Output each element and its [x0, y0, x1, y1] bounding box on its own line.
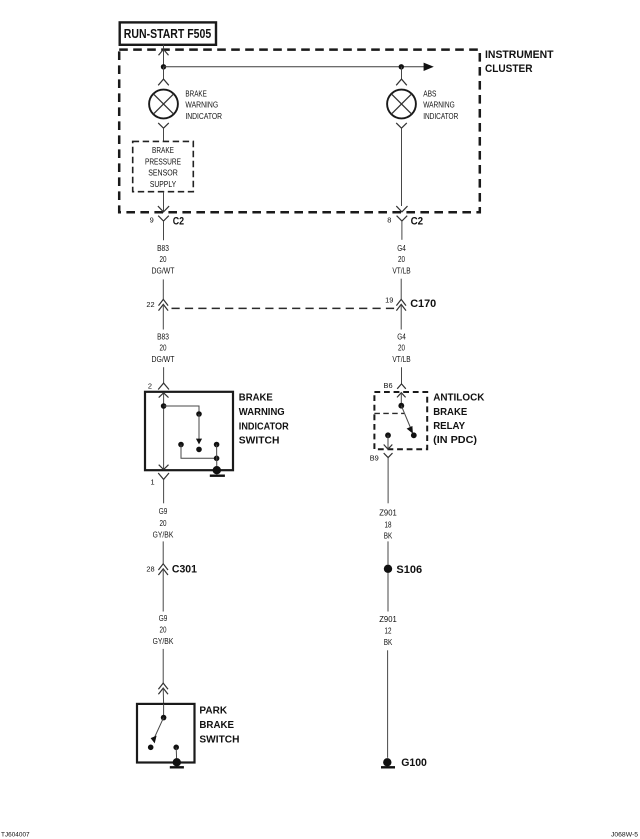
label brake pressure sensor supply	[145, 145, 181, 189]
svg-text:DG/WT: DG/WT	[152, 354, 175, 364]
connector fork pin B6	[397, 384, 406, 389]
node switch left contact	[178, 442, 184, 448]
svg-text:20: 20	[398, 343, 405, 353]
svg-text:TJ604007: TJ604007	[1, 831, 30, 838]
svg-text:20: 20	[398, 254, 405, 264]
svg-text:BRAKE: BRAKE	[152, 145, 174, 155]
label antilock brake relay	[433, 393, 485, 447]
connector fork above abs lamp	[396, 79, 407, 85]
svg-text:9: 9	[150, 216, 154, 225]
wire to relay pin B6	[401, 367, 403, 384]
svg-text:DG/WT: DG/WT	[152, 265, 175, 275]
svg-text:(IN PDC): (IN PDC)	[433, 435, 477, 446]
svg-text:CLUSTER: CLUSTER	[485, 63, 533, 75]
wire to C170 right	[400, 279, 402, 300]
svg-text:S106: S106	[396, 564, 422, 576]
relay pin B9 exit	[384, 435, 393, 449]
svg-text:28: 28	[146, 565, 154, 574]
wire switch branch	[164, 406, 199, 414]
svg-text:20: 20	[160, 254, 167, 264]
svg-text:BRAKE: BRAKE	[199, 720, 234, 731]
connector fork above brake lamp	[158, 79, 169, 85]
switch case ground	[210, 466, 225, 476]
park brake switch box	[137, 704, 195, 763]
svg-text:C301: C301	[172, 563, 198, 575]
svg-text:VT/LB: VT/LB	[392, 265, 411, 275]
svg-text:8: 8	[387, 216, 391, 225]
wire to C170 left	[162, 279, 164, 299]
connector C301 pin 28	[158, 564, 168, 612]
connector C170 link line	[172, 307, 397, 309]
wire label G4 20 VT/LB	[392, 243, 411, 276]
wire label B83 20 DG/WT lower	[152, 332, 175, 364]
wire to G100	[387, 650, 389, 758]
svg-text:22: 22	[146, 300, 154, 309]
connector C170 pin 22	[159, 299, 169, 329]
node switch center contact	[196, 447, 202, 453]
wire below S106	[387, 573, 389, 612]
wire label G4 20 VT/LB lower	[392, 332, 411, 364]
label park brake switch	[199, 705, 239, 745]
wire label Z901 18 BK	[379, 508, 397, 541]
node park brake common	[161, 715, 167, 721]
connector fork below abs lamp	[396, 123, 407, 206]
park brake switch blade	[151, 718, 164, 744]
svg-text:BK: BK	[384, 637, 393, 647]
connector fork pin 1	[158, 473, 169, 503]
connector C2 pin 8	[396, 206, 407, 240]
svg-text:GY/BK: GY/BK	[153, 636, 174, 646]
svg-text:B9: B9	[370, 453, 379, 462]
svg-text:INSTRUMENT: INSTRUMENT	[485, 49, 554, 61]
node park brake ground contact	[173, 745, 179, 751]
switch wiper arm	[196, 414, 202, 444]
lamp brake warning indicator	[149, 90, 178, 119]
svg-text:WARNING: WARNING	[423, 100, 455, 110]
wire label G9 20 GY/BK	[153, 506, 174, 539]
node switch link joint	[214, 456, 220, 462]
svg-text:SUPPLY: SUPPLY	[150, 179, 177, 189]
svg-text:19: 19	[385, 295, 393, 304]
splice S106	[384, 565, 392, 573]
label brake warning indicator	[185, 88, 222, 121]
switch through line	[159, 393, 169, 470]
svg-text:C2: C2	[411, 216, 424, 228]
svg-text:WARNING: WARNING	[239, 407, 285, 418]
svg-text:J068W-5: J068W-5	[611, 831, 638, 838]
wire switch to case ground	[216, 445, 218, 471]
svg-text:G9: G9	[159, 506, 168, 516]
node left junction	[161, 64, 166, 69]
wire junction to brake lamp	[163, 67, 165, 79]
svg-text:RUN-START F505: RUN-START F505	[124, 26, 211, 41]
svg-text:2: 2	[148, 382, 152, 391]
instrument cluster box	[119, 50, 480, 213]
wire switch contact link	[181, 445, 217, 459]
connector fork pin 2	[158, 383, 169, 389]
svg-text:BK: BK	[384, 530, 393, 540]
svg-text:B83: B83	[157, 332, 169, 342]
brake pressure sensor supply box	[133, 141, 194, 191]
wire F505 to left junction	[163, 45, 165, 67]
svg-text:C170: C170	[410, 298, 436, 310]
svg-text:20: 20	[160, 624, 167, 634]
svg-text:SENSOR: SENSOR	[148, 168, 178, 178]
svg-text:G4: G4	[397, 243, 406, 253]
svg-text:INDICATOR: INDICATOR	[185, 111, 222, 121]
svg-text:G9: G9	[159, 613, 168, 623]
svg-text:SWITCH: SWITCH	[199, 734, 239, 745]
node switch branch contact	[196, 411, 202, 417]
connector C2 pin 9	[158, 206, 169, 240]
wire to C301	[162, 541, 164, 563]
svg-text:ABS: ABS	[423, 88, 437, 98]
svg-text:12: 12	[385, 625, 392, 635]
svg-text:INDICATOR: INDICATOR	[423, 111, 458, 121]
svg-text:RELAY: RELAY	[433, 421, 465, 432]
brake warning indicator switch box	[145, 392, 233, 470]
label brake warning indicator switch	[239, 393, 289, 447]
svg-text:1: 1	[150, 477, 154, 486]
relay pin B6 entry	[397, 393, 406, 406]
svg-text:C2: C2	[173, 216, 184, 228]
svg-text:PARK: PARK	[199, 705, 227, 716]
wire sensor box to C2	[163, 192, 165, 212]
svg-text:G4: G4	[397, 332, 406, 342]
svg-text:BRAKE: BRAKE	[239, 393, 273, 404]
wire park brake to ground	[175, 747, 178, 762]
node right junction	[399, 64, 404, 69]
park brake case ground	[170, 758, 184, 767]
wire junction bus with arrow	[164, 63, 434, 71]
relay internal divider	[374, 412, 404, 414]
svg-text:INDICATOR: INDICATOR	[239, 421, 289, 432]
wire to in-line connection	[162, 649, 164, 683]
wire label Z901 12 BK	[379, 614, 397, 647]
svg-text:PRESSURE: PRESSURE	[145, 156, 181, 166]
connector C170 pin 19	[396, 299, 406, 329]
connector fork pin B9	[384, 453, 393, 503]
fuse feed label RUN-START F505	[120, 22, 216, 44]
wire junction to abs lamp	[401, 67, 403, 79]
wire label G9 20 GY/BK lower	[153, 613, 174, 646]
svg-text:20: 20	[160, 518, 167, 528]
in-line connection	[158, 683, 168, 704]
node switch right contact	[214, 442, 220, 448]
svg-text:VT/LB: VT/LB	[392, 354, 411, 364]
svg-text:G100: G100	[401, 757, 427, 769]
svg-text:Z901: Z901	[379, 614, 397, 624]
svg-text:GY/BK: GY/BK	[153, 529, 174, 539]
svg-text:WARNING: WARNING	[185, 100, 218, 110]
connector arrow into cluster	[159, 49, 169, 55]
svg-text:BRAKE: BRAKE	[433, 407, 467, 418]
svg-text:20: 20	[160, 343, 167, 353]
node park brake contact	[148, 745, 154, 751]
park brake switch entry	[163, 704, 165, 718]
label abs warning indicator	[423, 88, 458, 121]
relay switch blade	[401, 406, 413, 434]
node relay contact left	[385, 432, 391, 438]
antilock brake relay box	[374, 392, 427, 449]
ground G100	[381, 758, 395, 767]
wire label B83 20 DG/WT	[152, 243, 175, 276]
node switch upper contact	[161, 403, 167, 409]
svg-text:B6: B6	[384, 381, 393, 390]
instrument cluster label	[485, 49, 554, 75]
node relay common	[398, 403, 404, 409]
svg-text:SWITCH: SWITCH	[239, 436, 280, 447]
wire to switch pin 2	[163, 367, 165, 383]
lamp abs warning indicator	[387, 90, 416, 119]
wire to S106	[387, 541, 389, 564]
svg-text:Z901: Z901	[379, 508, 397, 518]
svg-text:ANTILOCK: ANTILOCK	[433, 393, 485, 404]
svg-text:B83: B83	[157, 243, 169, 253]
node relay contact right	[411, 432, 417, 438]
connector fork below brake lamp	[158, 123, 169, 141]
svg-text:BRAKE: BRAKE	[185, 88, 207, 98]
svg-text:18: 18	[385, 519, 392, 529]
